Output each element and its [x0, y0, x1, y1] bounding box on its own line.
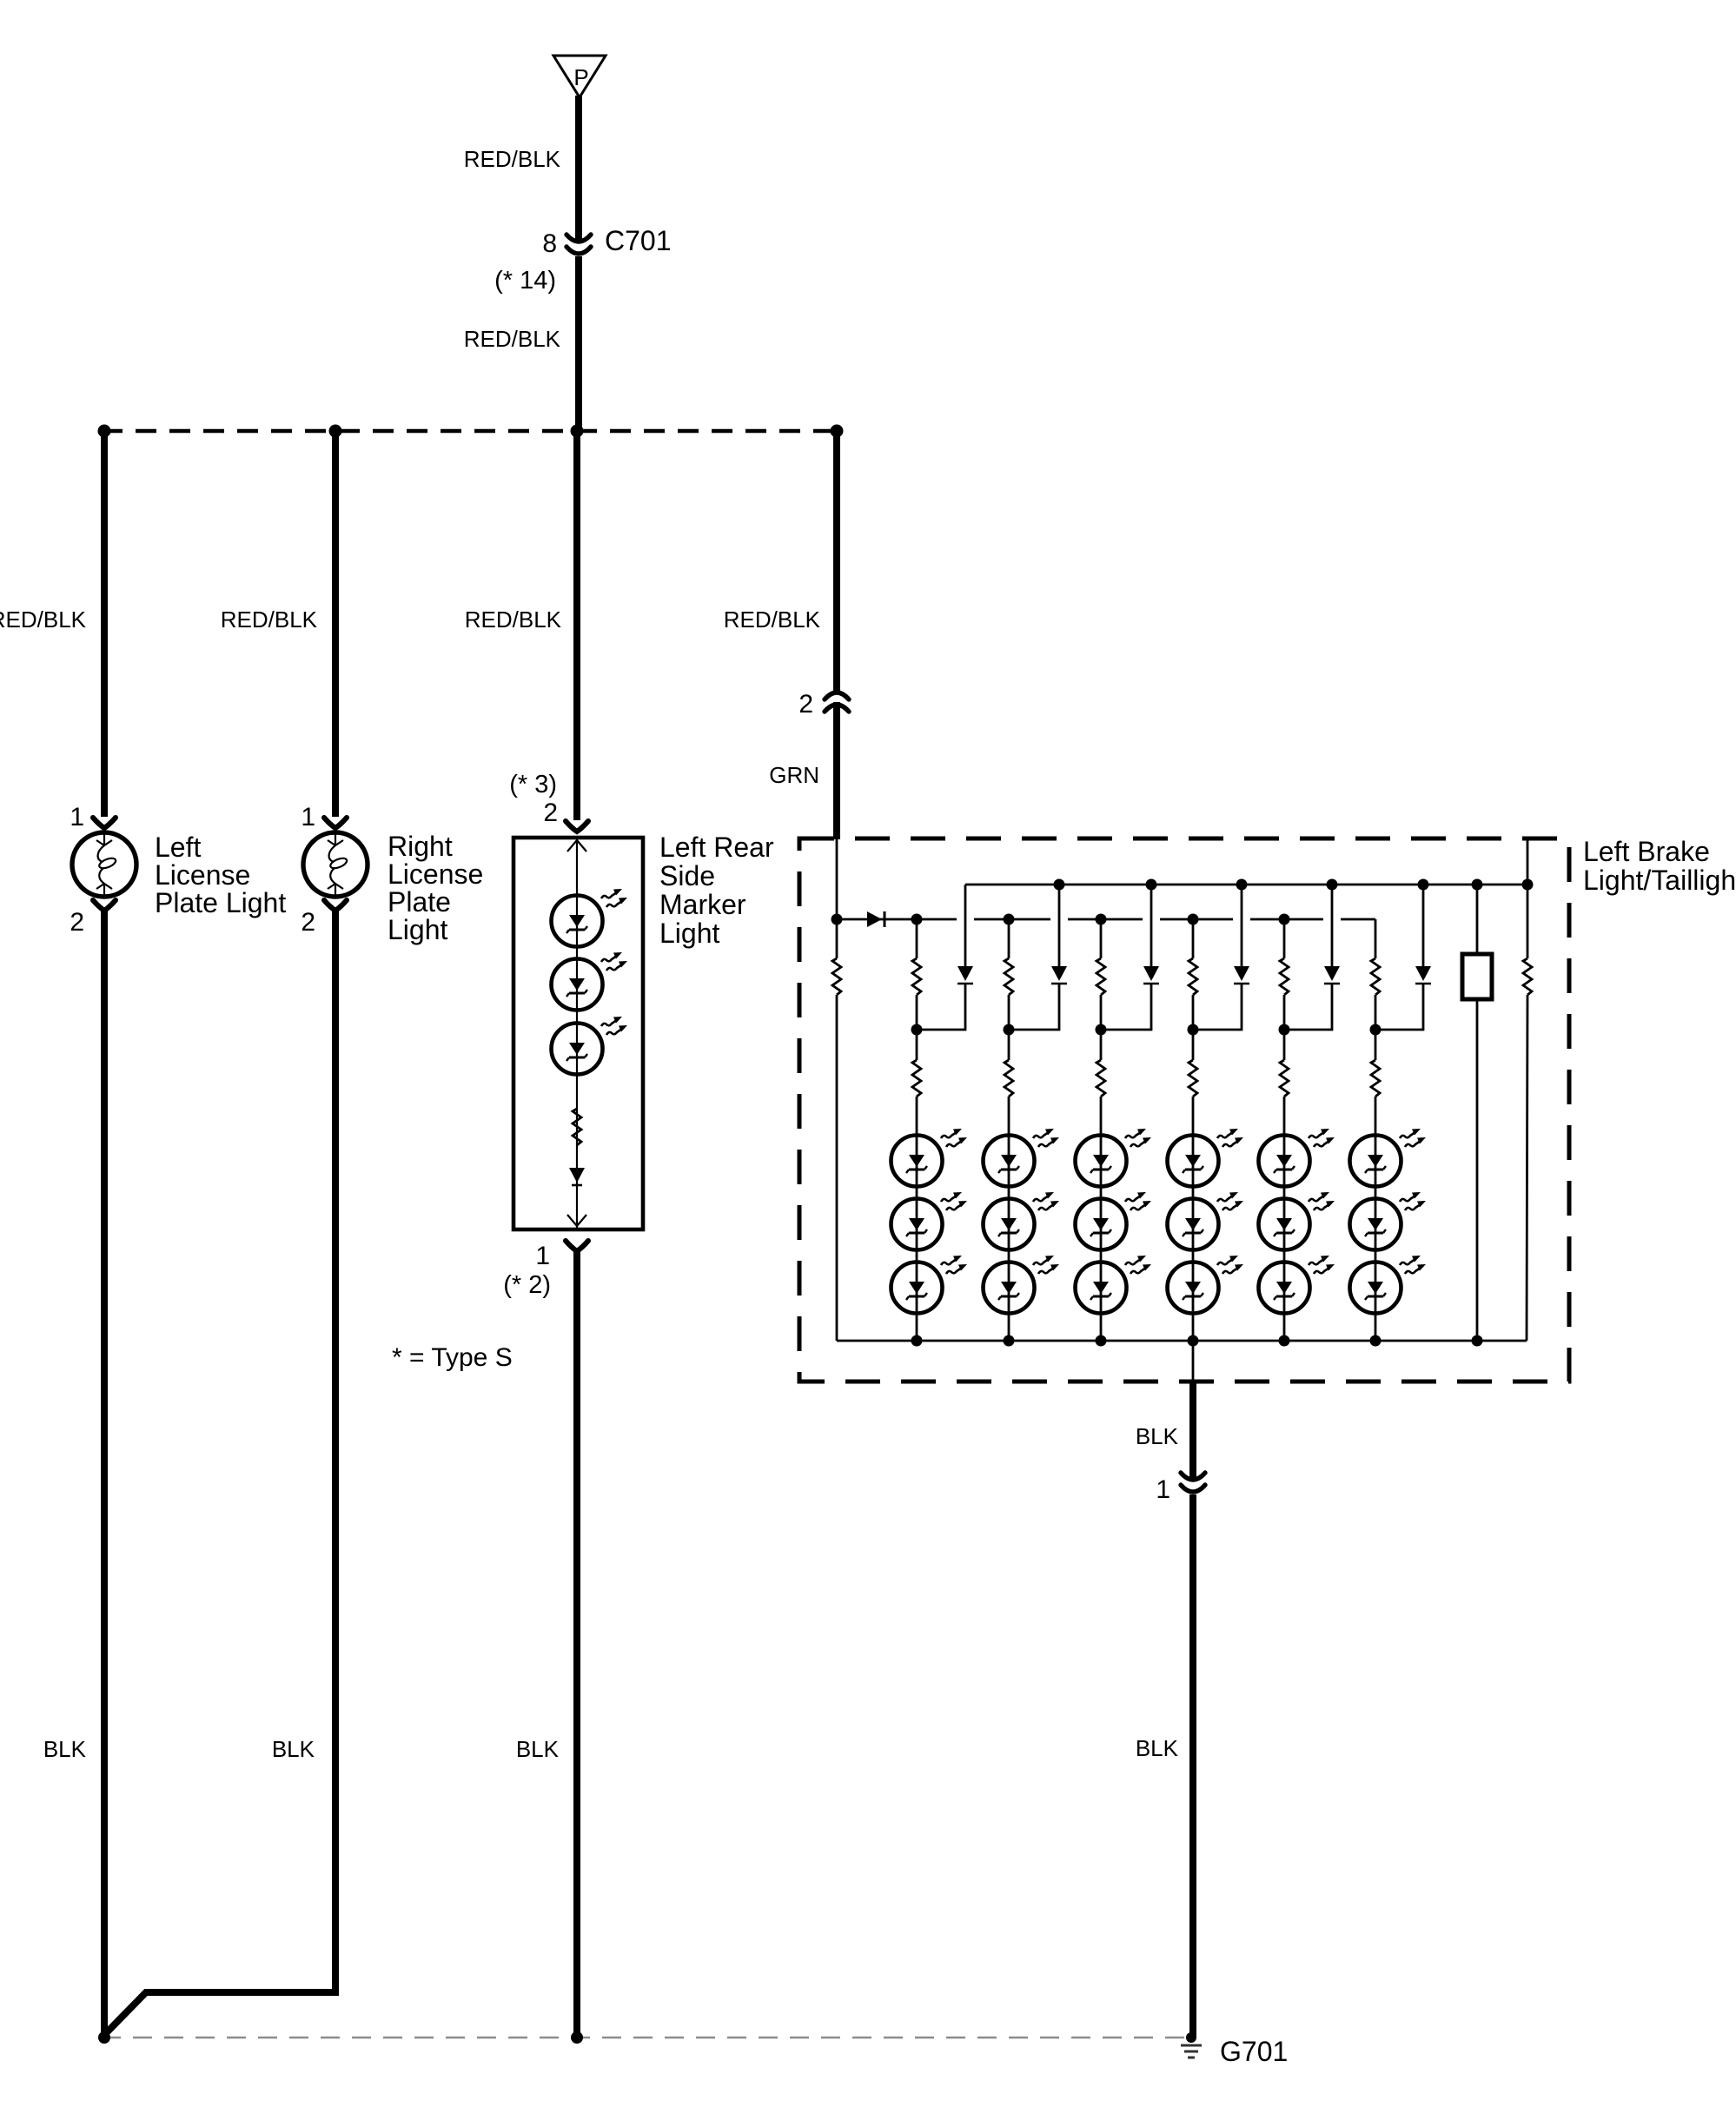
svg-text:C701: C701 [605, 225, 672, 256]
junction node string 3 [1096, 1024, 1107, 1036]
LED 2-1 [984, 1129, 1060, 1187]
LED 5-1 [1259, 1129, 1335, 1187]
side marker resistor [573, 1109, 581, 1145]
svg-text:2: 2 [798, 690, 813, 719]
terminal arrow bottom (right license plate light) [324, 900, 347, 911]
resistor pack component box [1462, 954, 1492, 999]
LED string 5 series resistor [1283, 1030, 1286, 1341]
svg-text:G701: G701 [1220, 2036, 1288, 2067]
svg-text:Light: Light [388, 914, 448, 945]
svg-text:License: License [388, 858, 483, 890]
svg-text:BLK: BLK [1136, 1735, 1179, 1761]
side marker output diode arrow [569, 1168, 585, 1185]
svg-text:BLK: BLK [516, 1736, 560, 1762]
bottom bus node string 2 [1004, 1335, 1015, 1347]
svg-text:RED/BLK: RED/BLK [464, 326, 561, 352]
svg-text:Plate: Plate [388, 886, 451, 918]
svg-text:RED/BLK: RED/BLK [465, 606, 562, 633]
node lower bus string 2 [1004, 914, 1015, 925]
svg-text:Marker: Marker [659, 889, 746, 920]
LED 5-2 [1259, 1192, 1335, 1250]
wire RED/BLK from P to connector C701 [575, 96, 582, 241]
upper bus node x1429 [1236, 879, 1248, 891]
svg-text:1: 1 [1156, 1475, 1170, 1504]
bypass diode 6 [1415, 966, 1431, 984]
svg-text:P: P [573, 64, 588, 90]
side marker internal wire [576, 838, 578, 1229]
svg-text:BLK: BLK [1136, 1423, 1179, 1449]
svg-text:RED/BLK: RED/BLK [0, 606, 87, 633]
LED 6-3 [1350, 1256, 1427, 1314]
LED 6-1 [1350, 1129, 1427, 1187]
LED string 4 series resistor [1192, 1030, 1195, 1341]
node lower bus string 4 [1188, 914, 1199, 925]
wire RED/BLK from C701 to splice bus [575, 256, 582, 431]
side marker input arrow [567, 840, 586, 852]
bottom bus node string 6 [1370, 1335, 1382, 1347]
LED 1-3 [891, 1256, 968, 1314]
side marker LED 2 [552, 952, 628, 1011]
terminal arrow top (side marker light) [566, 821, 588, 832]
bulb left license plate light [72, 832, 136, 897]
upper bus node x1219 [1054, 879, 1065, 891]
svg-text:Left Rear: Left Rear [659, 832, 774, 863]
bypass diode 2 [1051, 966, 1067, 984]
svg-text:Light: Light [659, 918, 720, 949]
svg-text:BLK: BLK [43, 1736, 87, 1762]
brake light bottom bus [837, 1340, 1527, 1342]
splice node A [98, 425, 111, 438]
resistor pack leg [1476, 885, 1479, 1341]
brake light upper bus [965, 884, 1527, 886]
wire RED/BLK (col 4) [833, 431, 840, 693]
splice node B [329, 425, 342, 438]
label Left Brake Light/Taillight [1583, 836, 1736, 896]
svg-text:BLK: BLK [272, 1736, 315, 1762]
svg-text:Side: Side [659, 860, 715, 891]
upper bus node x1638 [1418, 879, 1429, 891]
bottom bus node string 3 [1096, 1335, 1107, 1347]
ground node G701 [1186, 2032, 1196, 2043]
svg-text:RED/BLK: RED/BLK [464, 146, 561, 172]
svg-text:(* 14): (* 14) [494, 267, 556, 295]
upper bus node resistor pack [1472, 879, 1483, 891]
bypass diode leg 2 [1009, 885, 1059, 1030]
in-line connector (pin 1) [1181, 1473, 1205, 1492]
label Right License Plate Light [388, 831, 483, 945]
junction node string 1 [911, 1024, 923, 1036]
svg-text:(* 3): (* 3) [509, 771, 557, 799]
bypass diode 4 [1234, 966, 1249, 984]
label Left License Plate Light [155, 832, 286, 918]
LED string 5 upper resistor leg [1283, 919, 1286, 1030]
svg-text:1: 1 [301, 803, 315, 832]
svg-text:8: 8 [542, 229, 557, 258]
wire BLK from left license plate light to ground bus [101, 911, 108, 2034]
splice node C [571, 425, 584, 438]
bypass diode leg 5 [1284, 885, 1332, 1030]
svg-text:Right: Right [388, 831, 453, 862]
svg-text:1: 1 [70, 803, 84, 832]
ground bus (dashed) [102, 2037, 1191, 2039]
svg-text:2: 2 [301, 908, 315, 937]
LED 5-3 [1259, 1256, 1335, 1314]
bottom bus node string 4 [1188, 1335, 1199, 1347]
ground node col 3 [571, 2031, 583, 2044]
LED 1-2 [891, 1192, 968, 1250]
LED string 1 series resistor [916, 1030, 918, 1341]
bypass diode 5 [1324, 966, 1340, 984]
svg-text:RED/BLK: RED/BLK [724, 606, 821, 633]
junction node string 4 [1188, 1024, 1199, 1036]
left shunt resistor leg [836, 919, 838, 1341]
svg-text:2: 2 [70, 908, 84, 937]
bottom bus node resistor pack [1472, 1335, 1483, 1347]
brake light internal feed wire [836, 839, 838, 919]
wire from bottom bus to box edge [1192, 1341, 1195, 1382]
svg-text:RED/BLK: RED/BLK [221, 606, 318, 633]
node lower bus string 3 [1096, 914, 1107, 925]
bulb right license plate light [303, 832, 368, 897]
svg-text:* = Type S: * = Type S [392, 1343, 513, 1372]
right leg with resistor [1527, 840, 1527, 1341]
svg-text:(* 2): (* 2) [503, 1271, 551, 1299]
terminal arrow below side marker box [566, 1241, 588, 1251]
LED string 2 upper resistor leg [1008, 919, 1010, 1030]
bypass diode 3 [1143, 966, 1159, 984]
ground node col 1 [98, 2031, 110, 2044]
side marker LED 3 [552, 1017, 628, 1075]
power source arrow P [553, 56, 606, 97]
LED 3-2 [1076, 1192, 1152, 1250]
svg-text:Left Brake: Left Brake [1583, 836, 1710, 867]
svg-text:License: License [155, 859, 250, 891]
series diode after GRN feed [867, 911, 885, 927]
LED 4-1 [1168, 1129, 1244, 1187]
LED string 4 upper resistor leg [1192, 919, 1195, 1030]
upper bus node x1533 [1327, 879, 1338, 891]
left rear side marker light box [514, 838, 643, 1229]
svg-text:Plate Light: Plate Light [155, 887, 286, 918]
LED 4-3 [1168, 1256, 1244, 1314]
node lower bus string 5 [1279, 914, 1290, 925]
wire BLK from side marker to ground bus [573, 1251, 580, 2038]
brake light lower bus [837, 918, 1375, 921]
LED string 6 series resistor [1375, 1030, 1377, 1341]
bypass diode 1 [957, 966, 973, 984]
in-line connector (pin 2) [825, 693, 849, 712]
bypass diode leg 4 [1193, 885, 1242, 1030]
bottom bus node string 5 [1279, 1335, 1290, 1347]
svg-text:Light/Taillight: Light/Taillight [1583, 865, 1736, 896]
LED string 6 upper resistor leg [1375, 919, 1377, 1030]
terminal arrow top (left license plate light) [93, 818, 116, 828]
junction node string 6 [1370, 1024, 1382, 1036]
wire GRN into brake light box [833, 702, 840, 839]
left brake light/taillight dashed box [799, 838, 1569, 1382]
svg-text:2: 2 [543, 799, 558, 827]
junction node string 5 [1279, 1024, 1290, 1036]
LED 2-2 [984, 1192, 1060, 1250]
LED 3-1 [1076, 1129, 1152, 1187]
LED 3-3 [1076, 1256, 1152, 1314]
svg-text:Left: Left [155, 832, 201, 863]
svg-text:GRN: GRN [769, 762, 819, 788]
bypass diode leg 6 [1375, 885, 1423, 1030]
LED 6-2 [1350, 1192, 1427, 1250]
wire BLK below brake light box [1189, 1382, 1196, 1479]
LED 2-3 [984, 1256, 1060, 1314]
LED string 2 series resistor [1008, 1030, 1010, 1341]
upper bus node x1325 [1146, 879, 1157, 891]
side marker LED 1 [552, 889, 628, 947]
label Left Rear Side Marker Light [659, 832, 774, 949]
wire RED/BLK to left license plate light [101, 431, 108, 817]
LED 4-2 [1168, 1192, 1244, 1250]
wire RED/BLK to left rear side marker light [573, 431, 580, 820]
LED string 1 upper resistor leg [916, 919, 918, 1030]
LED string 3 upper resistor leg [1100, 919, 1103, 1030]
terminal arrow top (right license plate light) [324, 818, 347, 828]
svg-text:1: 1 [535, 1242, 550, 1270]
wire BLK to ground [1189, 1494, 1196, 2038]
node GRN feed [832, 914, 843, 925]
junction node string 2 [1004, 1024, 1015, 1036]
wire RED/BLK to right license plate light [332, 431, 339, 817]
node lower bus string 6 [1375, 918, 1376, 920]
wire BLK from right license plate light joining left BLK wire [105, 911, 335, 2034]
bypass diode leg 1 [917, 885, 965, 1030]
node lower bus string 1 [911, 914, 923, 925]
terminal arrow bottom (left license plate light) [93, 900, 116, 911]
side marker bottom chevron [567, 1215, 586, 1226]
LED 1-1 [891, 1129, 968, 1187]
LED string 3 series resistor [1100, 1030, 1103, 1341]
upper bus node right leg [1522, 879, 1534, 891]
ground symbol G701 [1181, 2045, 1202, 2058]
bottom bus node string 1 [911, 1335, 923, 1347]
splice node D [831, 425, 844, 438]
splice bus (dashed wire) [102, 429, 837, 434]
bypass diode leg 3 [1101, 885, 1151, 1030]
connector C701 symbol [567, 235, 591, 254]
